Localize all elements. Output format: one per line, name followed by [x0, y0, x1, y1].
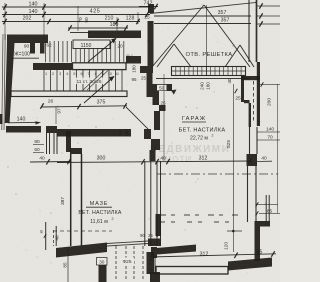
garage wall piece3: [153, 91, 160, 105]
step block c: [159, 105, 166, 111]
dim row 202 210 128: [2, 21, 140, 23]
svg-text:128: 128: [126, 16, 135, 22]
garage left wall piece2: [147, 73, 153, 97]
svg-text:25: 25: [141, 76, 147, 81]
svg-text:ГАРАЖ: ГАРАЖ: [182, 116, 206, 122]
pocket pier: [66, 131, 71, 152]
right wall left edge: [241, 76, 244, 102]
svg-text:60: 60: [34, 147, 40, 153]
diagonal into corridor: [126, 107, 148, 129]
svg-text:ИМОТИ: ИМОТИ: [158, 155, 192, 164]
svg-text:4: 4: [66, 72, 68, 76]
svg-text:25: 25: [148, 233, 153, 238]
svg-text:40: 40: [261, 156, 267, 162]
svg-text:26: 26: [48, 99, 54, 105]
svg-text:375: 375: [97, 100, 106, 106]
svg-text:85: 85: [63, 262, 68, 268]
basement corner inner line: [55, 226, 57, 246]
basement corner outer line: [45, 222, 47, 250]
svg-text:140: 140: [17, 117, 26, 123]
big triangle: [152, 5, 204, 67]
svg-text:30: 30: [99, 259, 105, 265]
dim 30 box: [97, 258, 108, 266]
svg-text:312: 312: [199, 156, 208, 162]
svg-text:40: 40: [55, 235, 60, 241]
stair bottom lower bar: [57, 129, 131, 137]
svg-text:300: 300: [97, 156, 106, 162]
landing slab outline: [11, 91, 127, 97]
svg-text:20: 20: [117, 44, 123, 50]
svg-text:387: 387: [60, 197, 66, 205]
dim row 180: [68, 27, 128, 29]
label 1150 box: [73, 40, 110, 49]
svg-text:БЕТ. НАСТИЛКА: БЕТ. НАСТИЛКА: [179, 128, 226, 134]
svg-text:210: 210: [105, 16, 114, 22]
svg-text:200: 200: [267, 98, 273, 106]
svg-text:6: 6: [80, 72, 82, 76]
svg-text:62: 62: [46, 43, 52, 49]
svg-text:202: 202: [23, 16, 32, 22]
svg-text:25: 25: [235, 96, 241, 102]
bottom dim line: [150, 254, 276, 257]
door jamb bar: [99, 262, 107, 282]
svg-text:357: 357: [221, 18, 230, 24]
svg-text:БЕТ. НАСТИЛКА: БЕТ. НАСТИЛКА: [78, 210, 121, 216]
dim line 200 top end: [260, 84, 280, 86]
dim 357 row2: [154, 23, 251, 25]
corridor wall lines: [144, 161, 146, 246]
svg-text:95: 95: [131, 77, 137, 82]
corridor pier: [156, 214, 162, 236]
garage inner dim line: [163, 74, 165, 161]
svg-text:90: 90: [24, 44, 30, 50]
dim row 140 top: [2, 6, 150, 8]
svg-text:МАЗЕ: МАЗЕ: [90, 201, 109, 207]
extension lines top: [4, 3, 6, 40]
basement bottom wall sloped: [56, 243, 107, 258]
stair arrow lower diagonal: [84, 77, 114, 104]
svg-text:70: 70: [267, 135, 273, 141]
lower flight treads: [44, 70, 122, 91]
corridor bottom block: [147, 252, 155, 274]
svg-text:10: 10: [108, 72, 112, 76]
svg-text:3: 3: [59, 72, 61, 76]
garage left wall upper: [148, 21, 154, 66]
step block b: [151, 139, 160, 150]
dim line 525/120: [233, 84, 235, 252]
left outer edge lines: [2, 34, 3, 130]
bottom wall bar sloped: [157, 245, 196, 255]
bottom wall left chunk: [151, 247, 157, 258]
wall face line under grate: [156, 78, 250, 80]
wall jog left: [140, 66, 153, 73]
bottom left pillar: [150, 272, 160, 282]
svg-text:25: 25: [160, 101, 166, 106]
svg-text:40: 40: [227, 78, 232, 83]
stair landing bar solid: [33, 63, 72, 70]
right wall inner edge: [249, 103, 251, 127]
landing bar right black chunk: [126, 56, 141, 64]
svg-text:НЕДВИЖИМИ: НЕДВИЖИМИ: [150, 144, 231, 155]
right wall step bar: [255, 221, 271, 227]
right wall lower vertical: [255, 227, 261, 262]
right wall top cap: [241, 76, 260, 80]
right edge tick lines: [257, 5, 280, 7]
corridor bottom cap: [148, 239, 161, 247]
left edge terminal blob: [0, 114, 3, 124]
grate center dim line: [206, 5, 208, 76]
svg-text:140: 140: [266, 127, 274, 133]
upper flight treads: [46, 41, 124, 62]
door post A: [30, 43, 35, 54]
svg-text:Ж=100: Ж=100: [14, 52, 30, 58]
centerline dash-dot: [157, 173, 278, 175]
svg-text:5: 5: [73, 72, 75, 76]
right wall thin section: [249, 127, 251, 154]
right wall outer jog lines: [265, 195, 267, 221]
label 11 st 20/25: [73, 78, 107, 85]
dim row 140 / 425: [2, 14, 150, 16]
svg-text:90: 90: [84, 17, 90, 23]
svg-text:80: 80: [34, 139, 40, 145]
grate hatch strip: [172, 67, 246, 76]
door threshold lines: [107, 241, 148, 244]
svg-text:40: 40: [39, 156, 45, 162]
right outer wall verticals: [248, 0, 250, 62]
svg-text:140: 140: [29, 2, 38, 8]
step arrowhead: [171, 90, 177, 95]
svg-text:8: 8: [95, 72, 97, 76]
stair top-left thick wall bar: [7, 35, 48, 44]
bottom recess outline: [156, 267, 228, 275]
svg-text:357: 357: [218, 10, 227, 16]
svg-text:425: 425: [90, 9, 101, 15]
svg-text:2: 2: [52, 72, 54, 76]
dim 357 row1: [154, 15, 251, 17]
stair bottom-left bar: [6, 126, 41, 133]
dashed door zone: [115, 246, 117, 280]
svg-text:25: 25: [144, 15, 150, 21]
garage left wall top piece: [148, 4, 154, 13]
small triangle left: [157, 44, 174, 67]
svg-text:70: 70: [78, 17, 84, 23]
svg-text:2: 2: [212, 134, 214, 138]
stair break band: [83, 71, 104, 91]
stair landing bar outlined: [73, 63, 127, 70]
right wall step edge: [244, 100, 250, 103]
dim junction dot: [232, 230, 235, 233]
bottom right band: [228, 258, 272, 271]
svg-text:97: 97: [57, 108, 62, 114]
svg-text:2: 2: [112, 217, 114, 221]
stair top wall bar: [88, 31, 141, 39]
svg-text:90: 90: [140, 233, 145, 238]
svg-text:180: 180: [124, 129, 129, 137]
svg-text:180: 180: [132, 65, 137, 73]
svg-text:180: 180: [206, 82, 211, 90]
svg-text:85: 85: [257, 250, 263, 256]
small triangle right: [225, 45, 240, 67]
wall pocket below stairs: [46, 126, 57, 133]
basement dashed swing line: [53, 230, 112, 232]
svg-text:312: 312: [200, 252, 209, 258]
right wall pillar: [247, 154, 258, 166]
stair top wall thin line: [70, 32, 90, 34]
svg-text:140: 140: [29, 9, 38, 15]
svg-text:120: 120: [224, 242, 230, 250]
garage dashes: [160, 214, 242, 216]
garage step bar 50: [153, 84, 173, 91]
svg-text:Ф25: Ф25: [123, 259, 132, 265]
diagonal leader top right: [150, 3, 256, 14]
step block a: [144, 129, 151, 139]
svg-text:ОТВ. РЕШЕТКА: ОТВ. РЕШЕТКА: [185, 52, 232, 58]
svg-text:11,61 м: 11,61 м: [90, 219, 108, 225]
right wall lines below pillar: [247, 166, 249, 222]
garage left wall low: [150, 150, 156, 161]
dim line 85 upper: [256, 204, 278, 206]
right edge vertical dim: [277, 84, 279, 213]
svg-text:1150: 1150: [81, 43, 92, 49]
right wall right edge: [257, 62, 260, 126]
stair arrow upper diagonal: [88, 39, 116, 63]
basement wall cap: [70, 148, 82, 154]
svg-text:240: 240: [200, 82, 205, 90]
right wall dashed core: [253, 81, 255, 123]
tread numbers: [45, 72, 119, 76]
svg-text:90: 90: [118, 130, 123, 136]
garage wall piece4: [154, 111, 160, 130]
svg-text:1: 1: [45, 72, 47, 76]
left wall solid tapered: [5, 43, 15, 123]
door post B: [40, 43, 45, 54]
basement left wall lines: [70, 154, 72, 246]
svg-text:22,72 м: 22,72 м: [190, 136, 208, 142]
svg-text:11: 11: [115, 72, 119, 76]
svg-text:7: 7: [88, 72, 90, 76]
label F25: [121, 258, 135, 265]
basement corner dashed line: [53, 230, 55, 246]
